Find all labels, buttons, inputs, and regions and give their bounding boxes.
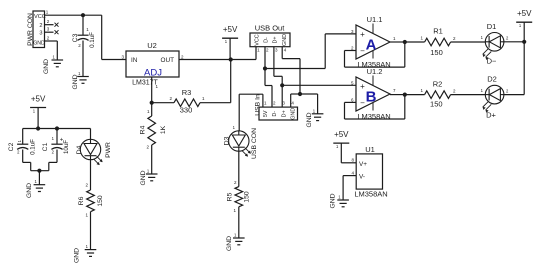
svg-text:A: A [366,36,377,53]
junction rail/+5V [36,126,40,130]
svg-text:R4: R4 [139,125,146,134]
IC U1 LM358AN power [351,145,387,199]
junction GND net [298,92,302,96]
capacitor C2 0.1uF [8,129,36,171]
svg-text:GND: GND [26,183,33,198]
resistor R2 150 [405,80,486,109]
junction +5V / OUT / R3 [229,57,233,61]
svg-text:LM358AN: LM358AN [357,112,390,121]
svg-text:D+: D+ [273,36,279,43]
svg-text:+: + [360,82,365,91]
ground below PWR CON [43,55,63,75]
resistor R6 150 [78,183,104,250]
svg-text:U1.2: U1.2 [367,67,383,76]
svg-text:ADJ: ADJ [144,68,162,79]
resistor R1 150 [405,27,486,58]
ground below caps [26,179,45,198]
wire D1 to +5V rail [504,41,524,43]
svg-text:+5V: +5V [31,95,46,104]
capacitor C1 10uF [42,129,70,171]
op-amp U1.1 LM358AN (A) [351,15,396,69]
resistor R3 330 [152,88,231,115]
junction +5V rail [522,40,526,44]
wire opamp B output [390,94,405,96]
svg-text:150: 150 [243,191,250,203]
svg-text:GND: GND [226,236,233,251]
svg-text:−: − [360,99,365,108]
wire PWR pin1 to C3 node [45,14,102,16]
svg-text:150: 150 [97,195,104,207]
svg-text:IN: IN [131,57,138,64]
svg-text:V-: V- [359,174,365,181]
wire D2 to +5V rail [504,94,524,96]
ground below R4 [140,169,158,186]
svg-text:R2: R2 [433,80,443,89]
wire USB Out pin2 D- down [264,47,266,86]
wire B feedback loop [345,95,405,119]
junction C3 top [81,13,85,17]
connector USB Out (J2) [250,24,290,53]
svg-text:R5: R5 [226,192,233,201]
svg-text:D2: D2 [487,75,497,84]
svg-text:LM358AN: LM358AN [354,190,387,199]
svg-text:+5V: +5V [334,130,349,139]
svg-text:R1: R1 [433,27,443,36]
wire D- to opamp A +input [265,34,356,69]
svg-text:+5V: +5V [223,25,238,34]
junction B out [403,93,407,97]
regulator U2 LM317T [121,41,184,89]
wire USB Out pin3 D+ down [274,47,282,107]
power +5V for U1 [333,130,356,163]
LED D2 (D+) [481,75,509,120]
svg-text:GND: GND [140,170,147,185]
svg-text:0.1uF: 0.1uF [89,32,96,48]
power +5V bottom left [30,95,46,129]
LED D3 [223,125,250,156]
ground below U1 [329,193,348,208]
wire U1 V- to ground [343,176,356,200]
svg-text:B: B [366,89,377,106]
op-amp U1.2 LM358AN (B) [351,67,396,121]
svg-text:U1.1: U1.1 [367,15,383,24]
svg-text:U2: U2 [147,41,157,50]
no-connect pin 2 [45,23,59,27]
svg-text:GND: GND [282,34,288,46]
svg-text:D+: D+ [486,111,496,120]
svg-text:D-: D- [264,37,270,43]
wire D4 to R6 [90,160,92,190]
svg-text:+5V: +5V [517,9,532,18]
LED D1 (D-) [481,22,509,66]
svg-text:150: 150 [430,100,443,109]
svg-text:D-: D- [272,111,278,117]
wire GND to ground symbol [300,94,318,114]
wire GND to USB In pin4 [291,94,300,107]
ground below R5 [226,233,245,252]
wire to U2 IN [102,15,126,59]
svg-text:5V: 5V [263,110,269,117]
svg-text:D4: D4 [76,145,83,154]
junction D- tap [263,66,267,70]
svg-text:0.1uF: 0.1uF [30,139,37,155]
svg-text:D+: D+ [281,110,287,117]
power +5V top right [516,9,532,94]
svg-text:OUT: OUT [161,57,175,64]
svg-text:USB In: USB In [254,94,261,116]
wire U2 ADJ down [151,77,153,103]
wire R3 to +5V node [230,60,232,103]
svg-text:3: 3 [39,31,42,37]
wire U2 OUT to +5V node [179,59,231,61]
svg-text:GND: GND [329,193,336,208]
svg-text:150: 150 [430,48,443,57]
junction rail/C1 [55,126,59,130]
node ADJ junction [150,101,154,105]
LED D4 (PWR) [76,139,112,165]
wire A feedback loop [345,42,405,67]
svg-text:GND: GND [72,74,79,89]
svg-text:R3: R3 [182,88,192,97]
svg-text:10uF: 10uF [63,140,70,154]
svg-text:VCC: VCC [34,14,46,20]
svg-text:C2: C2 [8,142,15,151]
svg-text:U1: U1 [365,145,375,154]
wire rail to D4 [90,129,92,140]
svg-text:GND: GND [306,112,313,127]
svg-text:D3: D3 [223,136,230,145]
junction D+ tap [280,83,284,87]
ground below C3 [72,71,89,90]
svg-text:D1: D1 [487,22,497,31]
svg-text:2: 2 [39,23,42,29]
junction A out [403,40,407,44]
svg-text:VCC: VCC [254,34,260,45]
ground right of USB In [306,108,323,127]
svg-text:+: + [360,30,365,39]
resistor R5 150 [226,180,250,238]
svg-text:C1: C1 [42,142,49,151]
wire USB Out pin4 GND [282,47,300,94]
svg-text:−: − [360,47,365,56]
svg-text:GND: GND [33,41,45,47]
svg-text:D−: D− [487,57,497,66]
power +5V near USB Out [222,25,238,59]
wire opamp A output [390,41,405,43]
capacitor C3 0.1uF [72,15,96,76]
svg-text:R6: R6 [78,196,85,205]
svg-text:C3: C3 [72,33,79,42]
svg-text:GND: GND [291,108,297,120]
svg-text:GND: GND [43,59,50,74]
wire caps merge [31,170,49,172]
wire USB In pin1 to D3 [239,94,263,130]
connector PWR CON (J1) [27,10,50,48]
svg-text:USB CON: USB CON [251,128,258,159]
wire PWR GND pin [45,41,58,60]
wire D+ to opamp B +input [282,84,356,86]
svg-text:USB Out: USB Out [255,24,286,33]
no-connect pin 3 [45,30,59,34]
junction caps [37,169,41,173]
connector USB In (USB CON) [251,94,298,159]
wire +5V to USB Out pin1 [231,47,256,60]
svg-text:GND: GND [73,248,80,263]
ground below R6 [73,244,96,263]
wire to ground [38,171,40,185]
svg-text:V+: V+ [359,161,367,168]
resistor R4 1K [139,103,167,174]
svg-text:1K: 1K [160,125,167,134]
svg-text:330: 330 [180,106,193,115]
svg-text:PWR: PWR [105,142,112,158]
wire +5V rail to caps and D4 [23,128,91,130]
wire D- jog to USB In pin2 [265,86,272,108]
wire D3 to R5 [238,151,240,186]
